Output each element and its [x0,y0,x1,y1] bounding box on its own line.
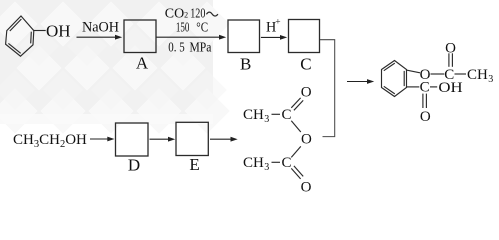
svg-text:O: O [301,132,312,148]
svg-text:E: E [189,155,199,174]
svg-text:CH: CH [243,107,264,123]
svg-text:C: C [300,54,311,73]
svg-text:0. 5: 0. 5 [168,41,184,56]
svg-text:3: 3 [264,162,269,173]
svg-text:O: O [301,85,312,101]
svg-text:CO: CO [165,7,184,22]
svg-text:OH: OH [438,80,462,96]
svg-text:O: O [420,109,431,125]
svg-text:O: O [445,40,456,56]
svg-text:CH: CH [467,67,488,83]
svg-text:CH3CH2OH: CH3CH2OH [13,132,87,150]
svg-text:OH: OH [46,21,71,40]
svg-text:2: 2 [184,11,188,20]
svg-text:120: 120 [190,7,205,22]
svg-text:C: C [281,107,291,123]
svg-text:3: 3 [264,114,269,125]
svg-text:C: C [420,80,430,96]
svg-text:A: A [136,54,149,73]
svg-text:3: 3 [488,74,493,85]
svg-text:B: B [240,54,251,73]
svg-text:CH: CH [243,155,264,171]
svg-text:C: C [281,155,291,171]
svg-text:D: D [128,155,140,174]
svg-text:MPa: MPa [190,41,213,56]
svg-text:NaOH: NaOH [82,20,119,36]
svg-text:°C: °C [196,21,208,36]
svg-text:+: + [275,18,280,28]
svg-text:150: 150 [176,21,190,36]
svg-text:O: O [301,179,312,195]
